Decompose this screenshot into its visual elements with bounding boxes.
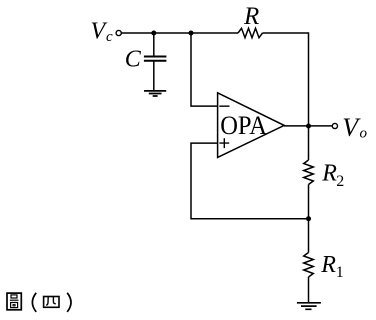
resistor R1 [304, 253, 314, 278]
svg-text:R: R [321, 161, 337, 187]
terminal Vo open circle [332, 123, 337, 128]
wire between feedback node and R1 [308, 219, 310, 253]
caption open paren [32, 293, 36, 312]
svg-text:C: C [125, 47, 142, 73]
wire top horizontal from R to right corner, then down the right rail to R2 [263, 33, 309, 160]
op-amp U1 triangle [218, 93, 285, 158]
node output junction dot [306, 124, 311, 129]
node junction dot on top wire (inverting input tap) [189, 31, 194, 36]
wire capacitor bottom lead [153, 61, 155, 90]
caption glyph 圖 [7, 293, 21, 310]
wire non-inverting input: left, down, right to feedback node [191, 143, 309, 219]
wire between R1 and ground [308, 277, 310, 302]
svg-text:o: o [360, 126, 368, 142]
wire op-amp output [284, 125, 332, 127]
svg-text:R: R [243, 3, 259, 30]
op-amp minus sign [219, 105, 229, 107]
ground under capacitor [144, 91, 166, 96]
svg-text:OPA: OPA [220, 111, 267, 140]
node feedback junction dot [306, 216, 311, 221]
resistor R2 [304, 160, 314, 185]
caption glyph 四 [44, 297, 59, 308]
wire capacitor top lead [153, 33, 155, 56]
capacitor C plates [144, 57, 167, 61]
svg-text:R: R [320, 252, 336, 278]
terminal Vc open circle [116, 30, 121, 35]
svg-text:c: c [106, 29, 113, 45]
svg-text:V: V [342, 113, 361, 142]
wire between R2 and feedback node [308, 185, 310, 219]
wire top horizontal from Vc terminal to R [122, 32, 239, 34]
wire inverting input: down then right [191, 33, 218, 106]
caption close paren [67, 293, 71, 312]
svg-text:1: 1 [336, 264, 344, 281]
resistor R [238, 28, 263, 37]
svg-text:2: 2 [336, 173, 344, 190]
op-amp plus sign [219, 138, 229, 148]
svg-text:V: V [91, 19, 108, 45]
ground bottom right [297, 303, 321, 310]
node junction dot on top wire (capacitor tap) [151, 31, 156, 36]
